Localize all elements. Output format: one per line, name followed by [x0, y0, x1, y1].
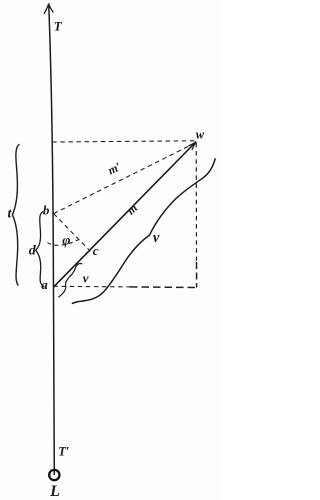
svg-text:v: v	[83, 271, 89, 286]
svg-text:φ: φ	[62, 233, 70, 248]
small brace v (along a-c)	[58, 263, 82, 297]
svg-text:L: L	[49, 483, 60, 500]
arrowhead at T	[44, 4, 53, 15]
svg-text:b: b	[43, 203, 50, 218]
svg-text:d: d	[29, 244, 37, 259]
dashed line m' (from b to w)	[54, 144, 193, 213]
svg-text:c: c	[93, 243, 99, 258]
vertical line T T'	[49, 6, 55, 475]
svg-text:T: T	[54, 19, 63, 34]
left big brace t	[12, 144, 19, 285]
circle L (plumb bob)	[49, 470, 59, 480]
svg-text:v: v	[153, 230, 160, 246]
dashed line b to c	[54, 214, 91, 252]
bottom dashed line (a to corner)	[53, 285, 130, 288]
top dashed horizontal line (from T line to w)	[52, 141, 196, 142]
angle arc phi (dashed)	[48, 239, 80, 245]
svg-text:w: w	[196, 128, 205, 142]
right vertical dashed line (w down to corner)	[195, 143, 197, 262]
svg-text:m: m	[124, 201, 140, 218]
arrowhead at w	[188, 142, 196, 150]
svg-text:m′: m′	[106, 159, 124, 177]
svg-text:t: t	[8, 207, 13, 222]
line m (solid from a to w)	[53, 142, 195, 287]
svg-text:T′: T′	[58, 445, 69, 459]
big right brace v	[72, 158, 216, 303]
brace d	[36, 211, 45, 287]
